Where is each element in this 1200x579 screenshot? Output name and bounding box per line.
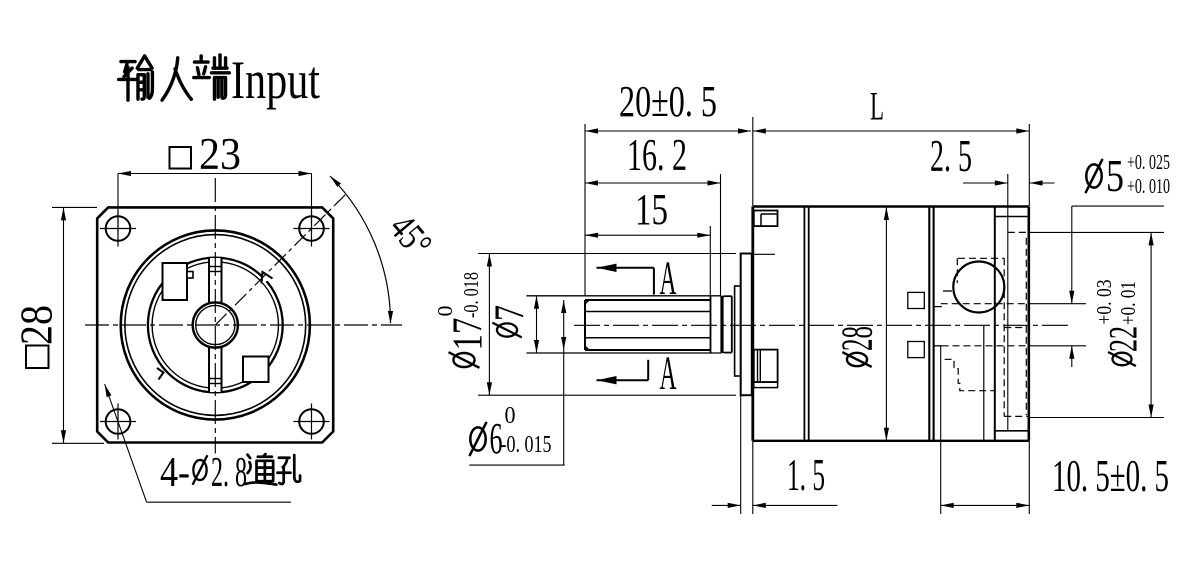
input shaft collar [724, 295, 732, 297]
dimension 1.5 extension lines [740, 395, 742, 514]
left view title 输入端Input [119, 55, 230, 100]
input shaft keyed section outline [585, 299, 711, 301]
svg-text:+0. 03: +0. 03 [1092, 280, 1116, 325]
bolt hole top-left [106, 216, 131, 241]
dimension 10.5 extension lines [940, 346, 942, 514]
carrier disc circle [152, 262, 278, 388]
svg-text:15: 15 [635, 185, 668, 234]
svg-text:2. 8: 2. 8 [211, 450, 247, 496]
svg-text:28: 28 [12, 305, 62, 345]
hole callout CJK tong kong [246, 454, 300, 485]
internal shoulder line [983, 325, 985, 441]
svg-text:2. 5: 2. 5 [930, 131, 972, 181]
svg-text:+0. 010: +0. 010 [1127, 174, 1170, 198]
dimension phi28 text rotated [842, 352, 871, 367]
gearbox body top edge [753, 205, 1029, 207]
svg-text:+0. 025: +0. 025 [1127, 150, 1170, 174]
dimension phi7 text rotated [492, 323, 521, 338]
dimension phi17 line with arrows [488, 254, 490, 396]
output cap inner top line [995, 216, 1029, 218]
front plate inner edge line [754, 253, 775, 255]
hidden phi22 spigot top dashed [1008, 231, 1029, 233]
right view horizontal centerline [574, 324, 1070, 326]
dimension phi17 text rotated [449, 352, 480, 368]
input shaft key flat lines [586, 311, 711, 313]
dimension phi22 text rotated [1108, 352, 1136, 366]
svg-text:0: 0 [433, 306, 457, 317]
output bearing housing line [994, 207, 996, 441]
section A-A top mark [597, 267, 654, 269]
svg-text:17: 17 [446, 318, 492, 351]
phi22 bottom extension line [1029, 417, 1164, 419]
dimension phi6 leader [563, 300, 565, 465]
ring gear section line pair 1 [803, 207, 805, 441]
output cap inner bottom line [995, 430, 1029, 432]
dimension 16.2 line with arrows [585, 182, 721, 184]
input shaft tip step bold line [720, 296, 723, 353]
svg-text:7: 7 [488, 305, 534, 321]
pilot boss inner rim circle [125, 235, 306, 416]
dimension L line with arrows [753, 130, 1030, 132]
dimension phi7 extension lines [526, 295, 721, 297]
dimension 15 line with arrows [585, 234, 710, 236]
pilot boss outer circle [121, 230, 310, 419]
svg-text:1. 5: 1. 5 [787, 450, 825, 500]
svg-text:-0. 018: -0. 018 [459, 272, 483, 318]
svg-text:16. 2: 16. 2 [627, 130, 687, 180]
phi22 top extension line [1029, 231, 1164, 233]
dimension phi17 extension lines [478, 253, 736, 255]
svg-text:A: A [660, 347, 677, 400]
vertical centerline [214, 178, 216, 454]
hidden staircase profile dashed [945, 359, 995, 390]
input hub bore inner circle [196, 305, 235, 344]
dimension square-23 extension lines [117, 174, 119, 233]
dimension phi28 line with arrows [885, 207, 887, 441]
svg-text:23: 23 [199, 129, 241, 179]
dimension square-28 extension lines [52, 206, 97, 208]
hidden pin short line upper [943, 290, 952, 292]
dimension phi7 line with arrows [536, 296, 538, 353]
svg-text:10. 5±0. 5: 10. 5±0. 5 [1052, 451, 1169, 501]
dimension 1.5 arrows outside [712, 504, 741, 506]
svg-text:4-: 4- [160, 450, 190, 496]
dimension square-28 line with arrows [63, 207, 65, 443]
shaft step small rectangle [735, 286, 741, 376]
front plate screw tab top [754, 211, 778, 227]
hidden bore dashed vertical in cap [1025, 238, 1027, 415]
svg-text:Input: Input [231, 50, 320, 110]
horizontal centerline [85, 324, 402, 326]
dimension 16.2 extension line [720, 174, 722, 296]
hole leader line 4xD2.8 [105, 384, 147, 502]
gearbox mounting face bold line [751, 207, 754, 441]
planet window bottom-right [243, 357, 269, 383]
bolt hole bottom-left [106, 409, 131, 434]
bolt hole top-right [299, 216, 324, 241]
hidden cavity right dashed [1003, 258, 1005, 416]
hidden cavity bottom dashed [1004, 415, 1029, 417]
gearbox body bottom edge [753, 440, 1029, 442]
extension line body face above [752, 117, 754, 206]
svg-text:A: A [660, 252, 677, 305]
front plate screw tab bottom [754, 350, 778, 383]
notch top-right [262, 272, 273, 284]
dimension 2.5 extension line [1007, 174, 1009, 430]
hidden cavity top dashed [958, 257, 1004, 259]
hidden cavity left dashed [956, 258, 958, 283]
bolt hole bottom-right [299, 409, 324, 434]
hidden coupling slot upper dashed [908, 292, 925, 308]
svg-text:20±0. 5: 20±0. 5 [619, 77, 717, 126]
dimension phi22 line with arrows [1150, 232, 1152, 417]
dimension 10.5 line with arrows [941, 504, 1030, 506]
hidden pin short line lower [935, 306, 942, 308]
hidden step dashed near center [1004, 327, 1026, 329]
dimension phi6 text [469, 422, 486, 456]
notch bottom-left [157, 368, 164, 380]
dimension 15 extension line [709, 226, 711, 296]
svg-text:28: 28 [833, 326, 882, 351]
svg-text:L: L [870, 84, 884, 129]
output end face bold line [1028, 207, 1031, 441]
svg-text:-0. 015: -0. 015 [501, 432, 552, 458]
carrier crossbar [209, 258, 222, 392]
flange square outline [97, 207, 333, 442]
svg-text:5: 5 [1106, 150, 1124, 201]
svg-text:+0. 01: +0. 01 [1116, 281, 1140, 325]
svg-text:22: 22 [1101, 326, 1146, 352]
section A-A bottom mark [597, 379, 649, 381]
hidden output bore bottom dashed [935, 345, 942, 347]
extension line right cap above [1028, 124, 1030, 206]
input pilot boss phi17 plate [741, 254, 752, 396]
radial pin hole circle [953, 262, 1004, 313]
dimension square-23 line with arrows [118, 173, 312, 175]
45-degree diagonal dashed line [215, 193, 347, 325]
svg-text:0: 0 [505, 403, 516, 429]
input shaft end chamfers [585, 300, 589, 304]
planet window small step top-left [187, 272, 193, 279]
dimension phi5 text [1085, 159, 1102, 193]
dimension phi5 leader [1072, 205, 1164, 207]
input hub bore circle [193, 302, 238, 347]
dimension 20 line with arrows [585, 130, 751, 132]
ring gear bore circle [148, 258, 283, 393]
dimension 2.5 arrows outside [963, 182, 1008, 184]
hidden coupling slot lower dashed [908, 342, 925, 358]
45-degree angle arc with arrows [330, 176, 391, 323]
planet window top-left [163, 263, 188, 300]
dimension square-28 square symbol [26, 346, 49, 369]
dimension 20 extension line left [584, 124, 586, 296]
hidden output bore top dashed [941, 303, 1029, 305]
dimension square-23 square symbol [170, 147, 192, 169]
ring gear section line pair 2 [928, 207, 930, 441]
